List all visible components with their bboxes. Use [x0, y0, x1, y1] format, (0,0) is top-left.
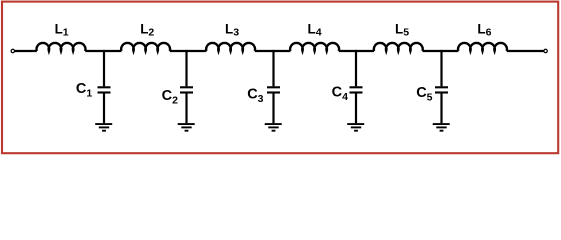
- wire: [255, 50, 291, 52]
- capacitor C5: [435, 50, 448, 123]
- inductor L1: [37, 43, 86, 51]
- inductor L2: [121, 43, 170, 51]
- ground (C1): [95, 124, 112, 131]
- ground (C5): [433, 124, 450, 131]
- wire: [170, 50, 207, 52]
- capacitor C1: [98, 50, 111, 123]
- ground (C2): [178, 124, 195, 131]
- capacitor C4: [350, 50, 363, 123]
- inductor L4: [290, 43, 339, 51]
- wire: [15, 50, 37, 52]
- inductor L5: [374, 43, 423, 51]
- left terminal: [11, 49, 14, 52]
- inductor L3: [206, 43, 255, 51]
- capacitor C3: [267, 50, 280, 123]
- ground (C3): [265, 124, 282, 131]
- wire: [423, 50, 459, 52]
- capacitor C2: [180, 50, 193, 123]
- inductor L6: [458, 43, 507, 51]
- ground (C4): [347, 124, 364, 131]
- wire: [85, 50, 121, 52]
- right terminal: [544, 49, 547, 52]
- wire: [339, 50, 374, 52]
- wire: [507, 50, 544, 52]
